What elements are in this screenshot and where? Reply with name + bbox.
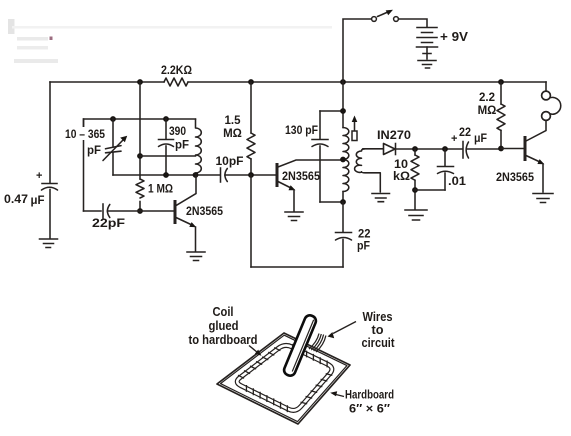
wire tank top — [320, 110, 343, 112]
ground Q1 emitter — [187, 252, 205, 261]
label 10-365 — [63, 127, 107, 157]
wire top supply rail — [50, 81, 546, 83]
svg-text:2.2KΩ: 2.2KΩ — [161, 65, 192, 77]
ground battery — [418, 61, 436, 69]
node tank bottom — [340, 199, 346, 205]
svg-text:130 pF: 130 pF — [285, 125, 318, 137]
svg-text:+: + — [451, 133, 457, 145]
node 10k bottom — [412, 187, 418, 193]
wire tank bottom — [320, 201, 343, 203]
svg-text:390: 390 — [169, 126, 186, 138]
wire 10k to .01 bottom — [415, 189, 445, 191]
wire feedback bottom — [251, 266, 343, 268]
capacitor 10pF — [221, 168, 276, 182]
svg-text:kΩ: kΩ — [393, 171, 410, 183]
svg-text:1 MΩ: 1 MΩ — [148, 184, 173, 196]
wires to circuit — [309, 334, 326, 353]
slug arrow — [352, 116, 358, 141]
node tap — [137, 153, 143, 159]
label coil glued to hardboard — [189, 305, 262, 356]
svg-text:pF: pF — [357, 241, 370, 253]
wire base Q1 — [140, 210, 174, 212]
switch S1 — [372, 10, 399, 22]
node varcap top — [110, 116, 116, 122]
wire left branch — [49, 82, 51, 183]
node rail battery/transformer — [340, 79, 346, 85]
node rail 2.2M drop — [498, 79, 504, 85]
phones jack — [542, 82, 561, 120]
battery B1 9V — [417, 28, 438, 60]
node tank top — [340, 108, 346, 114]
svg-text:Coil: Coil — [213, 305, 234, 319]
label wires to circuit — [328, 310, 396, 350]
wire coil tap — [140, 155, 196, 157]
wire oscillator box left — [83, 119, 85, 211]
svg-text:6″ × 6″: 6″ × 6″ — [349, 402, 390, 416]
svg-text:pF: pF — [175, 140, 189, 152]
transformer T1 primary — [343, 82, 349, 202]
capacitor 22uF — [451, 133, 501, 158]
node rail 1.5M drop — [248, 79, 254, 85]
svg-text:IN270: IN270 — [377, 130, 411, 142]
transistor Q1 2N3565 — [175, 175, 196, 251]
transistor Q3 2N3565 — [525, 121, 546, 192]
resistor 1M ohm — [136, 179, 144, 198]
node base Q3 — [498, 146, 504, 152]
hardboard outer edge — [217, 333, 350, 424]
capacitor 0.47uF — [36, 170, 58, 238]
wire secondary to diode — [363, 148, 384, 150]
wire feedback left — [250, 175, 252, 267]
svg-text:Hardboard: Hardboard — [345, 388, 394, 402]
label hardboard 6x6 — [330, 388, 394, 416]
svg-text:0.47: 0.47 — [4, 192, 28, 206]
resistor 1.5M ohm — [247, 82, 255, 175]
svg-text:1.5: 1.5 — [225, 115, 242, 127]
svg-text:pF: pF — [87, 145, 101, 157]
svg-text:glued: glued — [209, 319, 239, 333]
capacitor 22pF feedback — [336, 202, 352, 267]
capacitor 390pF — [159, 119, 174, 175]
capacitor variable 10-365pF — [103, 119, 127, 175]
svg-text:to: to — [372, 323, 384, 337]
ground secondary — [372, 194, 390, 202]
ground 10k — [405, 210, 427, 220]
svg-text:22: 22 — [459, 127, 471, 139]
svg-text:.01: .01 — [448, 176, 467, 188]
ground Q3 emitter — [533, 194, 553, 203]
svg-text:MΩ: MΩ — [478, 105, 497, 117]
hardboard inner edge — [221, 335, 347, 421]
wire x140 drop — [139, 82, 141, 179]
svg-text:2N3565: 2N3565 — [282, 171, 321, 183]
node rail-left drop — [137, 79, 143, 85]
wire oscillator box top — [84, 119, 196, 128]
svg-text:μF: μF — [474, 133, 487, 145]
ground left — [40, 239, 58, 248]
transistor Q2 2N3565 — [277, 160, 343, 211]
svg-text:10pF: 10pF — [216, 156, 244, 168]
wire switch to battery — [399, 19, 428, 27]
inductor L1 — [196, 119, 202, 175]
ground Q2 emitter — [285, 212, 303, 221]
capacitor 130pF — [312, 111, 328, 202]
node collector tap — [340, 157, 346, 163]
diode D1 IN270 — [384, 144, 463, 155]
svg-text:+: + — [36, 170, 42, 182]
capacitor .01 — [438, 149, 454, 190]
node base Q2 — [248, 172, 254, 178]
node 390 top — [163, 116, 169, 122]
node detector — [412, 146, 418, 152]
wire 22pF row — [84, 210, 102, 212]
svg-text:10 – 365: 10 – 365 — [65, 129, 106, 141]
svg-text:22pF: 22pF — [92, 218, 125, 230]
svg-text:2N3565: 2N3565 — [186, 206, 224, 218]
wire oscillator box bottom — [113, 174, 220, 176]
svg-text:2N3565: 2N3565 — [496, 172, 535, 184]
node 390 bottom — [163, 172, 169, 178]
svg-text:+ 9V: + 9V — [440, 30, 469, 44]
resistor 10k ohm — [411, 149, 419, 209]
svg-text:μF: μF — [31, 193, 45, 207]
wire switch riser — [343, 19, 371, 82]
node .01 top — [442, 146, 448, 152]
svg-text:22: 22 — [358, 229, 371, 241]
svg-text:2.2: 2.2 — [479, 92, 495, 104]
resistor 2.2M ohm — [497, 82, 505, 149]
node base Q1 — [137, 208, 143, 214]
capacitor 22pF — [103, 204, 140, 218]
svg-text:Wires: Wires — [363, 310, 393, 324]
transformer T1 secondary — [355, 149, 381, 192]
node coil bottom — [193, 172, 199, 178]
resistor 2.2K ohm — [164, 78, 188, 86]
handle stick — [282, 314, 317, 377]
svg-text:10: 10 — [394, 159, 408, 171]
wire base Q3 — [501, 148, 524, 150]
svg-text:to hardboard: to hardboard — [189, 333, 258, 347]
svg-text:circuit: circuit — [362, 336, 396, 350]
coil winding band — [237, 344, 332, 412]
svg-text:MΩ: MΩ — [223, 128, 242, 140]
